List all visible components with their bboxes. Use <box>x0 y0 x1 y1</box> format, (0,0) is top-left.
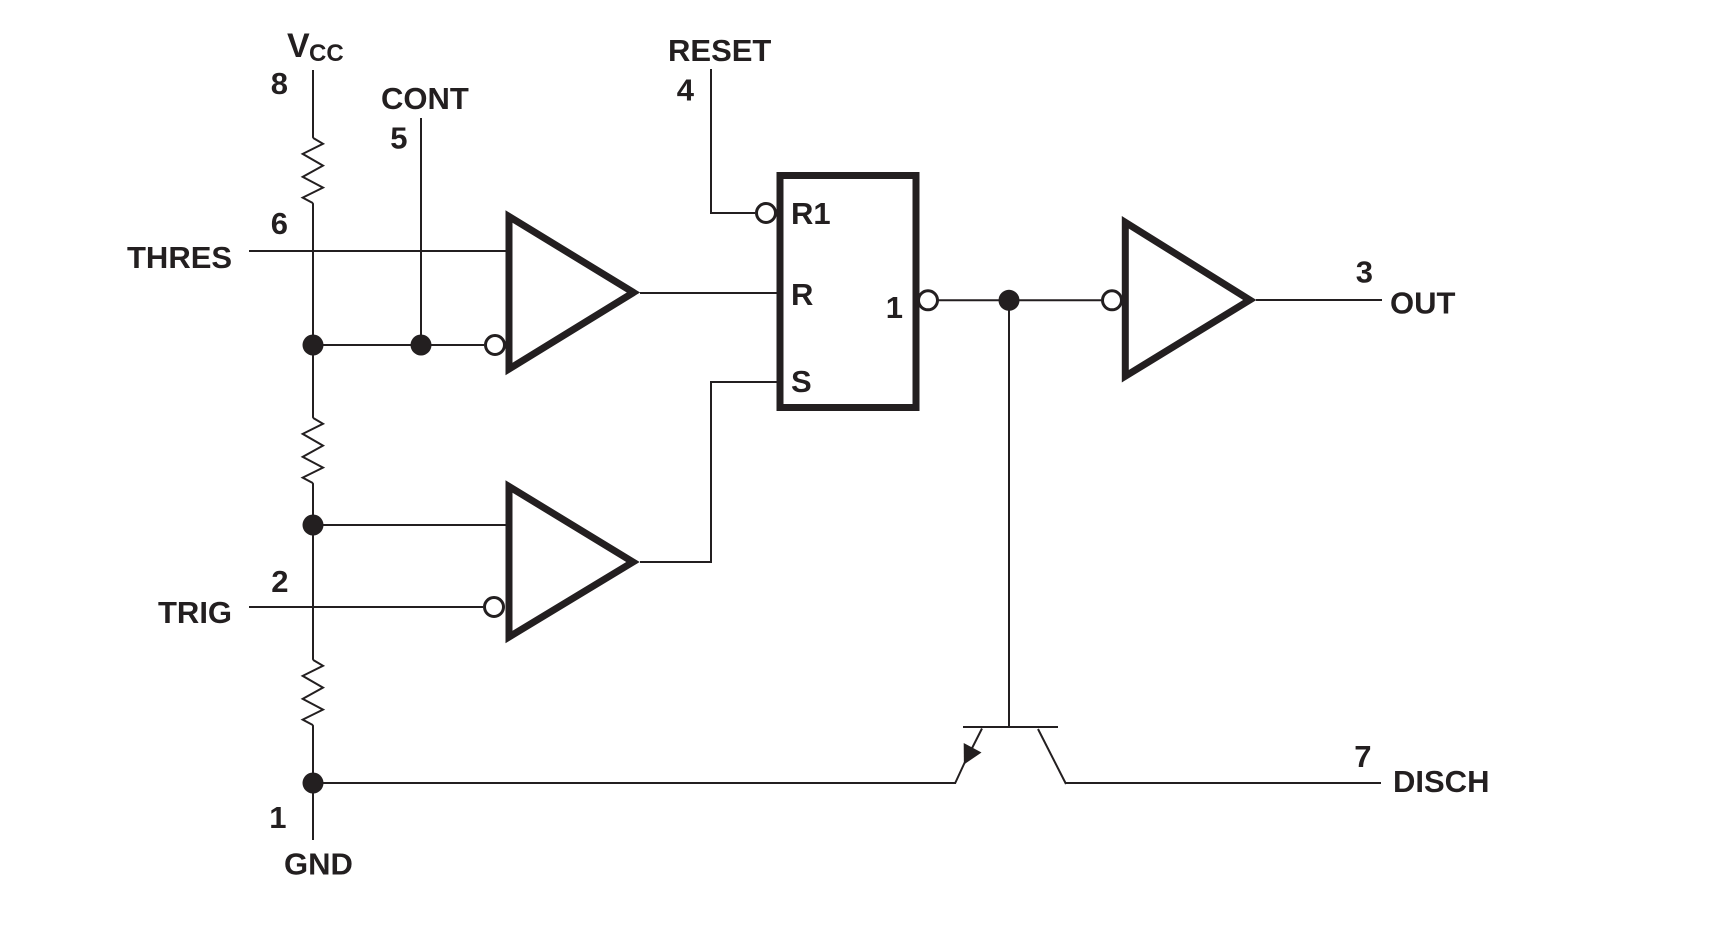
svg-text:TRIG: TRIG <box>158 595 232 630</box>
transistor Q1 collector <box>1038 729 1066 784</box>
inverting bubble buffer input <box>1103 291 1122 310</box>
wire RA to node <box>312 203 314 345</box>
wire lower node to RC <box>312 525 314 660</box>
svg-text:R: R <box>791 277 813 312</box>
inverting bubble flip-flop output <box>919 291 938 310</box>
svg-text:THRES: THRES <box>127 240 232 275</box>
wire TRIG <box>249 606 483 608</box>
buffer U4 <box>1125 222 1250 376</box>
svg-text:5: 5 <box>390 121 407 156</box>
svg-text:CC: CC <box>309 40 344 67</box>
resistor RB <box>303 418 323 483</box>
inverting bubble comparator 2 <box>485 598 504 617</box>
comparator U2 <box>509 487 633 638</box>
wire RB to lower node <box>312 483 314 525</box>
svg-text:DISCH: DISCH <box>1393 764 1489 799</box>
wire lower node to comparator 2 <box>313 524 508 526</box>
comparator U1 <box>509 217 634 370</box>
svg-text:7: 7 <box>1354 739 1371 774</box>
wire comparator 2 output to S <box>640 382 780 562</box>
wire RESET vertical <box>711 69 755 213</box>
wire ground node to transistor emitter <box>313 782 956 784</box>
wire RC to ground node <box>312 725 314 840</box>
junction dot CONT node <box>411 335 432 356</box>
svg-text:4: 4 <box>677 73 695 108</box>
wire flip-flop output to buffer <box>938 299 1101 301</box>
svg-text:GND: GND <box>284 847 353 882</box>
svg-text:3: 3 <box>1356 255 1373 290</box>
wire VCC stem <box>312 70 314 138</box>
svg-text:RESET: RESET <box>668 33 771 68</box>
junction dot divider lower node <box>303 515 324 536</box>
resistor RA <box>303 138 323 203</box>
svg-text:R1: R1 <box>791 196 831 231</box>
inverting bubble R1 input <box>757 204 776 223</box>
svg-text:S: S <box>791 364 812 399</box>
svg-text:V: V <box>287 27 310 65</box>
wire CONT <box>420 118 422 345</box>
transistor Q1 base bar <box>963 726 1058 728</box>
wire DISCH <box>1066 782 1381 784</box>
svg-text:CONT: CONT <box>381 81 469 116</box>
wire THRES <box>249 250 509 252</box>
svg-text:2: 2 <box>271 564 288 599</box>
junction dot output node <box>999 290 1020 311</box>
transistor Q1 emitter <box>955 729 982 784</box>
wire comparator 1 output to R <box>640 292 780 294</box>
flip-flop U3 <box>780 176 916 408</box>
node VCC label <box>287 27 344 67</box>
svg-text:1: 1 <box>886 290 903 325</box>
transistor Q1 emitter arrow <box>964 743 982 765</box>
svg-text:8: 8 <box>271 66 288 101</box>
svg-text:1: 1 <box>269 800 286 835</box>
inverting bubble comparator 1 <box>486 336 505 355</box>
wire output node to transistor base <box>1008 300 1010 727</box>
wire buffer output <box>1256 299 1382 301</box>
junction dot divider upper node <box>303 335 324 356</box>
svg-text:6: 6 <box>271 206 288 241</box>
wire upper node to comparator 1 <box>313 344 484 346</box>
junction dot ground node <box>303 773 324 794</box>
wire upper node to RB <box>312 345 314 418</box>
resistor RC <box>303 660 323 725</box>
svg-text:OUT: OUT <box>1390 286 1456 321</box>
